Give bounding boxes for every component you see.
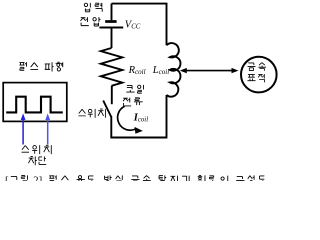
svg-text:[: [: [5, 175, 9, 181]
svg-text:2]: 2]: [33, 175, 42, 181]
